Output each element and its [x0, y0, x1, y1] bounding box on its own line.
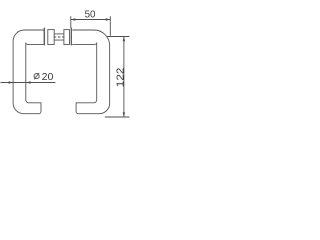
- svg-text:50: 50: [85, 9, 96, 21]
- svg-text:122: 122: [114, 67, 126, 87]
- svg-text:20: 20: [42, 71, 54, 83]
